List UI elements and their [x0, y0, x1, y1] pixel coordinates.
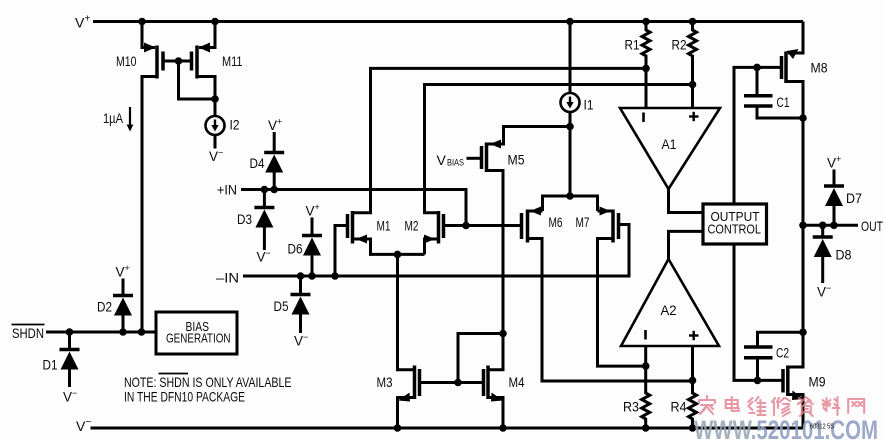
diode D7	[824, 170, 844, 226]
node V- label under I2	[209, 148, 223, 165]
node M11 drain junction dot	[211, 95, 219, 103]
svg-text:V: V	[209, 149, 218, 164]
svg-text:CONTROL: CONTROL	[708, 222, 762, 237]
svg-text:R1: R1	[625, 38, 640, 53]
wire M3-M4 gate tie	[420, 381, 484, 384]
node V- rail dot at M4	[499, 424, 507, 432]
wire M2 drain up to R2 node	[425, 85, 693, 213]
wire OUTPUT CONTROL top riser to M8 gate	[734, 67, 782, 204]
svg-text:D4: D4	[250, 156, 265, 171]
transistor M10 channel bar	[155, 46, 159, 79]
svg-text:−: −	[86, 417, 92, 428]
wire M3 source to V- rail	[398, 398, 415, 429]
svg-text:−: −	[72, 388, 77, 398]
node -IN dot D6	[308, 272, 316, 280]
svg-text:OUT: OUT	[861, 218, 883, 234]
transistor M11 source arrow	[199, 43, 211, 53]
transistor M2 source arrow	[424, 235, 435, 244]
node M4 drain dot	[499, 330, 507, 338]
svg-text:+IN: +IN	[217, 182, 237, 198]
node M5 source junction dot	[566, 123, 574, 131]
transistor M4 gate bar	[482, 369, 486, 396]
node V+ rail dot at M10	[138, 18, 146, 26]
svg-text:R3: R3	[623, 400, 639, 415]
svg-text:+: +	[125, 263, 130, 273]
note text about SHDN	[124, 374, 292, 405]
transistor M7 gate bar	[617, 213, 621, 239]
node V- bottom-left label	[76, 417, 92, 434]
svg-text:V: V	[75, 15, 85, 31]
op-amp A2 minus input mark	[644, 330, 647, 340]
node V+ label above D6	[306, 202, 320, 219]
transistor M8 gate bar	[780, 56, 784, 79]
transistor M7 source arrow	[600, 207, 611, 216]
svg-text:V: V	[76, 418, 86, 434]
node C1 gate-side dot	[753, 64, 761, 72]
svg-text:A2: A2	[661, 303, 677, 318]
capacitor C2	[744, 332, 803, 380]
transistor M8 channel bar	[784, 52, 788, 84]
svg-text:1µA: 1µA	[103, 111, 123, 126]
label 1uA with arrow	[103, 107, 133, 132]
node SHDN input label	[12, 325, 45, 342]
wire M9 source to V- rail	[788, 395, 803, 429]
transistor M9 gate bar	[781, 369, 785, 393]
wire I1 from V+ rail	[569, 22, 572, 93]
node V- rail dot at M3	[394, 424, 402, 432]
wire -IN riser to M1 gate	[335, 226, 348, 277]
wire A2 output to OUTPUT CONTROL	[669, 231, 704, 259]
node V+ rail dot at R1	[642, 18, 650, 26]
wire M1 source to tail	[353, 239, 425, 254]
wire M6 drain to A2 plus node	[528, 239, 693, 382]
node V+ top-left label	[75, 14, 91, 31]
wire SHDN to BIAS GENERATION	[46, 331, 156, 334]
svg-text:–IN: –IN	[216, 270, 239, 286]
wire M7 source lead	[598, 210, 614, 213]
svg-text:M10: M10	[116, 54, 137, 69]
diode D3	[254, 190, 274, 251]
transistor M11 gate bar	[190, 52, 194, 71]
current source I1	[561, 93, 580, 112]
node M6/M7 tail dot	[566, 192, 574, 200]
node A2 minus input dot	[642, 362, 650, 370]
transistor M10 source arrow	[144, 43, 156, 53]
svg-text:V: V	[268, 118, 277, 133]
svg-text:D5: D5	[274, 299, 289, 314]
op-amp A2 plus input mark	[689, 331, 699, 340]
node SHDN dot D2	[119, 328, 127, 336]
wire M8 source from V+ rail	[788, 22, 803, 54]
svg-text:M8: M8	[811, 61, 828, 76]
svg-text:A1: A1	[662, 137, 677, 152]
svg-text:I1: I1	[584, 98, 594, 113]
wire gate tie to M11 drain	[179, 61, 216, 99]
node A2 plus input dot	[689, 377, 697, 385]
wire gate tie riser to M4 drain	[458, 334, 503, 383]
transistor M6 source arrow	[530, 207, 541, 216]
svg-text:M2: M2	[405, 219, 419, 234]
wire M8 drain down output rail to M9 drain	[786, 82, 803, 368]
svg-text:IN THE DFN10 PACKAGE: IN THE DFN10 PACKAGE	[124, 389, 245, 405]
wire M4 drain lead	[488, 334, 503, 370]
node OUT dot at rail	[799, 222, 807, 230]
node V+ label above D7	[827, 154, 841, 171]
wire M5 source to I1 node	[487, 127, 571, 145]
svg-text:V: V	[63, 390, 72, 405]
svg-text:I2: I2	[230, 118, 240, 133]
transistor M3 source arrow	[398, 393, 410, 402]
op-amp A1 minus input mark	[642, 113, 645, 123]
wire VBIAS to M5 gate	[467, 157, 482, 160]
svg-text:V: V	[827, 156, 836, 171]
svg-text:C2: C2	[776, 346, 789, 361]
wire A1 output to OUTPUT CONTROL	[669, 189, 704, 213]
transistor M9 source arrow	[792, 391, 804, 401]
wire A2 minus input through R3 to V- rail	[642, 346, 650, 428]
node R2 bottom dot	[689, 81, 697, 89]
svg-text:D1: D1	[43, 358, 58, 373]
node V+ rail dot at R2	[689, 18, 697, 26]
svg-text:V: V	[294, 334, 303, 349]
svg-text:V: V	[116, 265, 125, 280]
node OUT dot at D8	[819, 222, 827, 230]
node V- rail dot at R4	[689, 424, 697, 432]
svg-text:M5: M5	[508, 153, 525, 168]
transistor M6 gate bar	[520, 213, 524, 239]
wire M2 source to tail	[425, 239, 439, 254]
transistor M5 gate bar	[480, 146, 484, 169]
node SHDN dot D1	[66, 328, 74, 336]
node C1 output-side dot	[799, 114, 807, 122]
svg-text:M4: M4	[509, 375, 525, 390]
transistor M5 channel bar	[485, 143, 489, 173]
diode D8	[813, 225, 833, 283]
node +IN dot D3	[261, 186, 269, 194]
node C2 output-side dot	[799, 328, 807, 336]
transistor M1 gate bar	[346, 214, 350, 238]
node V+ label above D4	[268, 117, 282, 134]
node M1/M2 tail dot	[394, 251, 402, 259]
wire V+ top rail	[93, 20, 803, 23]
transistor M4 channel bar	[486, 366, 490, 400]
wire tail down to M3 drain	[398, 254, 415, 369]
node V- label below D5	[294, 332, 308, 349]
svg-text:−: −	[826, 283, 831, 293]
svg-text:M6: M6	[549, 215, 563, 230]
transistor M1 channel bar	[351, 211, 355, 244]
node gate tie junction dot	[175, 57, 183, 65]
diode D1	[60, 332, 80, 387]
svg-text:D2: D2	[97, 300, 112, 315]
svg-text:D8: D8	[836, 248, 852, 263]
label VBIAS	[437, 152, 465, 169]
transistor M3 gate bar	[418, 369, 422, 396]
transistor M11 channel bar	[195, 46, 199, 79]
wire M10 drain down to SHDN node	[142, 77, 157, 333]
svg-text:+: +	[85, 14, 91, 25]
transistor M1 source arrow	[356, 235, 367, 244]
wire M5 drain down to M4 drain node	[487, 171, 504, 334]
wire V- bottom rail	[91, 427, 804, 430]
svg-text:−: −	[303, 332, 308, 342]
svg-text:60812 5S: 60812 5S	[810, 424, 834, 431]
node R1 bottom dot	[642, 65, 650, 73]
node V+ rail dot at I1	[566, 18, 574, 26]
svg-text:V: V	[437, 152, 447, 168]
transistor M9 channel bar	[786, 366, 790, 397]
wire +IN to M2 gate riser	[241, 190, 466, 226]
watermark chinese characters	[699, 396, 864, 416]
svg-text:M3: M3	[377, 375, 393, 390]
svg-text:V: V	[817, 285, 826, 300]
svg-text:D6: D6	[288, 242, 303, 257]
node SHDN dot M10 drain	[138, 328, 146, 336]
svg-text:D3: D3	[237, 212, 252, 227]
diode D2	[113, 279, 133, 333]
wire A2 plus input through R4 to V- rail	[689, 346, 697, 428]
svg-text:V: V	[306, 204, 315, 219]
svg-text:M11: M11	[222, 54, 243, 69]
svg-text:+: +	[315, 202, 320, 212]
wire OUT stub	[803, 224, 858, 227]
svg-text:R4: R4	[671, 400, 687, 415]
node M3/M4 gate dot	[454, 379, 462, 387]
node V- rail dot at R3	[642, 424, 650, 432]
node V+ rail dot at M11	[211, 18, 219, 26]
node OUT dot at D7	[830, 222, 838, 230]
svg-text:M7: M7	[576, 215, 590, 230]
svg-text:GENERATION: GENERATION	[166, 331, 231, 346]
wire M6/M7 tail U	[543, 196, 598, 211]
transistor M6 channel bar	[526, 210, 530, 243]
node C2 gate-side dot	[754, 377, 762, 385]
wire M2 gate to M6 gate	[444, 224, 522, 227]
node V- label under D1	[63, 388, 77, 405]
svg-text:M9: M9	[809, 375, 826, 390]
wire M7 drain to A2 minus node	[598, 239, 646, 367]
svg-text:V: V	[257, 250, 266, 265]
svg-text:WWW.520101.COM: WWW.520101.COM	[694, 415, 878, 441]
transistor M10 gate bar	[161, 52, 165, 71]
svg-text:BIAS: BIAS	[447, 158, 464, 169]
transistor M7 channel bar	[611, 210, 615, 243]
svg-text:+: +	[836, 154, 841, 164]
wire M1 drain up to R1 node	[353, 68, 647, 212]
transistor M8 source arrow	[787, 49, 799, 59]
transistor M2 channel bar	[437, 211, 441, 244]
transistor M2 gate bar	[442, 214, 446, 238]
op-amp A2 triangle	[621, 259, 719, 346]
node V- label below D3	[257, 248, 271, 265]
diode D5	[291, 276, 311, 333]
block OUTPUT CONTROL box	[703, 204, 767, 244]
resistor R1	[642, 22, 650, 109]
transistor M5 source arrow	[490, 140, 501, 149]
node -IN dot D5	[297, 272, 305, 280]
wire I2 to V- stub	[214, 135, 217, 149]
wire M6 source lead	[528, 210, 543, 213]
svg-text:−: −	[266, 248, 271, 258]
wire I1 to M6/M7 tail	[569, 112, 572, 196]
wire M11 source lead from V+ rail	[199, 22, 215, 48]
svg-text:D7: D7	[846, 191, 862, 206]
wire -IN to M7 gate	[243, 225, 629, 277]
wire M10 source lead from V+ rail	[142, 22, 155, 48]
wire M11 drain to I2	[197, 77, 215, 117]
op-amp A1 triangle	[620, 108, 720, 189]
node V+ label above D2	[116, 263, 130, 280]
diode D6	[302, 218, 322, 277]
svg-text:SHDN: SHDN	[12, 325, 44, 341]
svg-text:C1: C1	[777, 95, 790, 110]
svg-text:+: +	[277, 117, 282, 127]
svg-text:R2: R2	[672, 38, 687, 53]
transistor M3 channel bar	[413, 366, 417, 400]
diode D4	[264, 132, 284, 190]
wire M10-M11 gate tie	[163, 60, 192, 63]
svg-text:−: −	[218, 148, 223, 158]
node -IN dot M1 gate	[331, 272, 339, 280]
node V- label below D8	[817, 283, 831, 300]
transistor M4 source arrow	[491, 393, 503, 402]
node +IN dot D4	[270, 186, 278, 194]
op-amp A1 plus input mark	[689, 112, 699, 121]
wire OUTPUT CONTROL bottom riser to M9 gate	[734, 244, 783, 380]
node M2 gate dot at +IN riser	[462, 222, 470, 230]
current source I2	[206, 116, 225, 135]
resistor R2	[689, 22, 697, 109]
wire M4 source to V- rail	[488, 398, 503, 429]
svg-text:M1: M1	[377, 219, 391, 234]
block BIAS GENERATION box	[156, 312, 237, 354]
capacitor C1	[744, 67, 803, 118]
